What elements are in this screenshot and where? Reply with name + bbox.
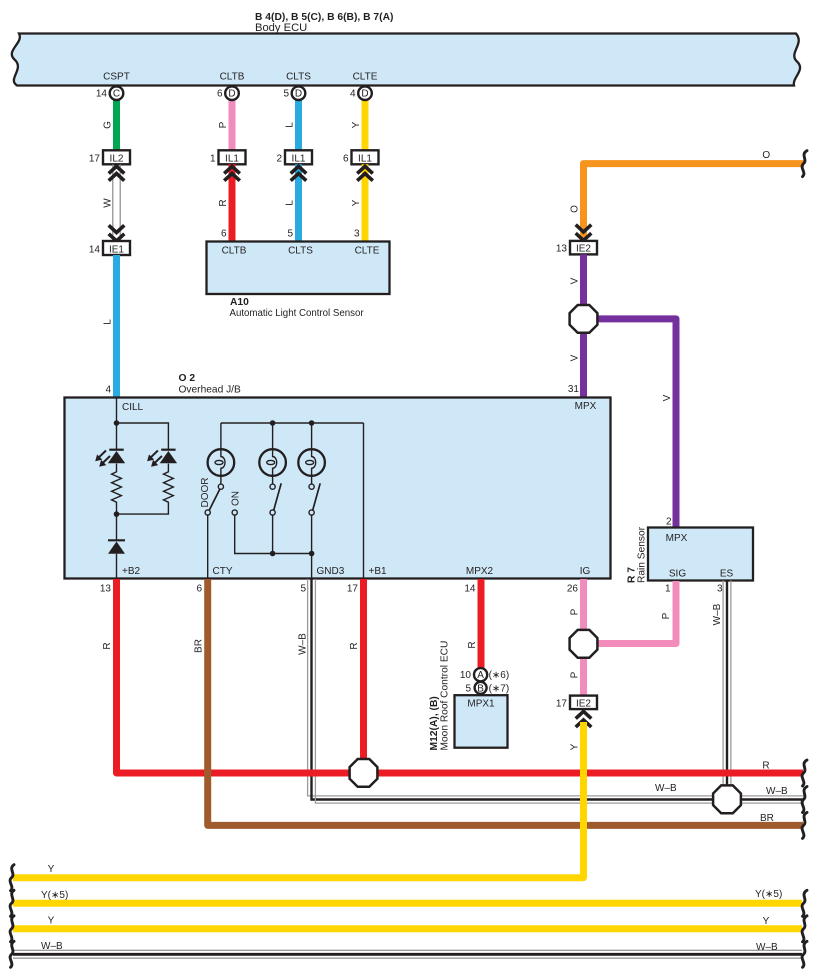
svg-text:Body ECU: Body ECU — [255, 22, 307, 34]
connector pin 14 C — [110, 86, 124, 100]
svg-text:A: A — [477, 670, 484, 681]
resistor R-a — [112, 464, 122, 514]
svg-text:MPX1: MPX1 — [467, 699, 495, 710]
svg-text:17: 17 — [556, 698, 568, 709]
break symbol W-B right end — [802, 787, 807, 813]
A10 Automatic Light Control Sensor box — [207, 242, 390, 295]
bus wire Y lower — [13, 925, 802, 932]
svg-text:R: R — [762, 761, 769, 772]
svg-text:Rain Sensor: Rain Sensor — [637, 526, 648, 583]
wire R +B1 down to junction J4 — [360, 579, 367, 773]
svg-text:BR: BR — [194, 639, 205, 653]
svg-text:CLTB: CLTB — [222, 246, 247, 257]
svg-text:R: R — [218, 199, 229, 206]
svg-text:(∗6): (∗6) — [489, 670, 510, 681]
svg-text:Y: Y — [570, 743, 581, 750]
svg-text:ON: ON — [231, 491, 242, 506]
connector pin 5 D — [292, 86, 306, 100]
svg-text:L: L — [103, 319, 114, 325]
svg-text:Y: Y — [763, 916, 770, 927]
svg-text:5: 5 — [283, 88, 289, 99]
svg-text:GND3: GND3 — [317, 566, 345, 577]
svg-text:1: 1 — [665, 584, 671, 595]
lamp top rail — [221, 422, 364, 424]
switch S3 — [309, 484, 314, 489]
moon roof pin 5 B (*7) — [475, 682, 487, 694]
svg-text:14: 14 — [464, 584, 476, 595]
svg-text:IE1: IE1 — [109, 244, 124, 255]
svg-text:IE2: IE2 — [576, 244, 591, 255]
svg-text:CLTE: CLTE — [355, 246, 380, 257]
svg-text:Overhead J/B: Overhead J/B — [179, 385, 241, 396]
svg-text:Y: Y — [351, 121, 362, 128]
svg-text:D: D — [228, 89, 235, 100]
svg-text:W–B: W–B — [41, 941, 63, 952]
bus wire Y(*5) — [13, 900, 802, 907]
junction J3 octagon on W-B line — [713, 785, 741, 813]
junction connector 17 IL2 — [103, 150, 130, 164]
svg-text:6: 6 — [343, 154, 349, 165]
wire W IL2 to IE1 — [112, 164, 114, 241]
svg-text:B: B — [477, 683, 484, 694]
svg-text:W–B: W–B — [655, 783, 677, 794]
svg-text:CILL: CILL — [122, 402, 144, 413]
svg-text:O: O — [570, 205, 581, 213]
break symbol orange right end — [802, 151, 807, 177]
svg-text:G: G — [103, 121, 114, 129]
svg-text:P: P — [218, 121, 229, 128]
svg-text:P: P — [570, 608, 581, 615]
svg-text:17: 17 — [347, 584, 359, 595]
wire +B1 internal — [363, 423, 365, 579]
svg-text:6: 6 — [221, 229, 227, 240]
svg-text:IG: IG — [580, 566, 591, 577]
connector pin 6 D — [225, 86, 239, 100]
wire L IL1 to A10 CLTS — [295, 164, 302, 242]
node junction dot top — [114, 420, 120, 426]
diode D3 — [116, 514, 118, 540]
break symbol R right end — [802, 760, 807, 786]
svg-text:(∗7): (∗7) — [489, 683, 510, 694]
svg-text:Y: Y — [48, 864, 55, 875]
Body ECU band B4(D) B5(C) B6(B) B7(A) — [12, 34, 800, 86]
wire R MPX2 to moon roof ECU — [478, 579, 485, 668]
node junction dot lower — [114, 511, 120, 517]
svg-text:CTY: CTY — [213, 566, 233, 577]
svg-text:4: 4 — [350, 88, 356, 99]
svg-text:IE2: IE2 — [576, 698, 591, 709]
svg-text:BR: BR — [760, 813, 774, 824]
switch S2 — [270, 484, 275, 489]
svg-text:5: 5 — [287, 229, 293, 240]
O2 Overhead J/B box — [65, 398, 611, 579]
junction J4 octagon on R line — [350, 759, 378, 787]
svg-text:R: R — [467, 641, 478, 648]
svg-text:17: 17 — [89, 154, 101, 165]
wire DOOR contact to CTY — [207, 515, 209, 578]
svg-text:O 2: O 2 — [179, 373, 196, 384]
svg-text:IL2: IL2 — [110, 154, 124, 165]
wire Y CLTE to IL1 — [362, 99, 369, 151]
lamp L2 — [272, 423, 274, 450]
wire G CSPT to IL2 — [113, 99, 120, 151]
svg-text:V: V — [570, 277, 581, 284]
svg-text:3: 3 — [717, 584, 723, 595]
wire V branch to rain sensor MPX — [592, 319, 676, 528]
junction connector 13 IE2 — [570, 241, 597, 255]
wire Y IE2 down to bottom bus — [13, 722, 584, 878]
wire GND3 internal — [311, 554, 313, 579]
wire P branch to rain sensor SIG — [594, 581, 676, 644]
bus wire W-B — [13, 949, 802, 951]
junction J2 octagon — [570, 630, 598, 658]
svg-text:R: R — [102, 642, 113, 649]
svg-text:SIG: SIG — [669, 569, 686, 580]
wire R IL1 to A10 CLTB — [229, 164, 236, 242]
svg-text:4: 4 — [105, 385, 111, 396]
svg-text:A10: A10 — [230, 297, 249, 308]
svg-text:MPX: MPX — [666, 533, 688, 544]
break symbols left ends — [10, 865, 14, 891]
wire BR CTY to right edge — [208, 579, 803, 825]
svg-text:IL1: IL1 — [225, 154, 239, 165]
wire V IE2 to junction J1 — [580, 254, 587, 308]
svg-text:M12(A), (B): M12(A), (B) — [429, 696, 440, 750]
svg-text:14: 14 — [89, 244, 101, 255]
wire W-B GND3 to bottom rail — [308, 579, 804, 803]
switch DOOR/ON — [218, 484, 223, 489]
svg-text:CLTE: CLTE — [353, 72, 378, 83]
svg-text:2: 2 — [276, 154, 282, 165]
wire CILL internal — [116, 398, 118, 423]
wire R +B2 to right edge — [117, 579, 804, 773]
svg-text:5: 5 — [465, 683, 471, 694]
svg-text:L: L — [285, 122, 296, 128]
svg-text:CLTS: CLTS — [286, 72, 311, 83]
junction connector 6 IL1 — [352, 150, 379, 164]
svg-text:1: 1 — [210, 154, 216, 165]
svg-text:L: L — [285, 200, 296, 206]
svg-text:W–B: W–B — [712, 603, 723, 625]
svg-text:5: 5 — [300, 584, 306, 595]
svg-text:+B2: +B2 — [122, 566, 141, 577]
svg-text:Y: Y — [48, 916, 55, 927]
break symbol BR right end — [802, 812, 807, 838]
svg-text:13: 13 — [100, 584, 112, 595]
svg-text:Automatic Light Control Sensor: Automatic Light Control Sensor — [230, 308, 365, 319]
svg-text:Moon Roof Control ECU: Moon Roof Control ECU — [440, 641, 451, 751]
break symbols right ends — [802, 890, 807, 916]
wire L IE1 to O2 CILL — [113, 255, 120, 398]
svg-text:C: C — [113, 89, 120, 100]
svg-text:W–B: W–B — [766, 786, 788, 797]
junction connector 2 IL1 — [285, 150, 312, 164]
svg-text:MPX2: MPX2 — [466, 566, 494, 577]
svg-text:R: R — [349, 642, 360, 649]
svg-text:2: 2 — [666, 517, 672, 528]
svg-text:W–B: W–B — [298, 633, 309, 655]
svg-text:DOOR: DOOR — [200, 478, 211, 508]
svg-text:V: V — [570, 354, 581, 361]
svg-text:D: D — [361, 89, 368, 100]
LED D2 — [161, 449, 175, 451]
svg-text:CSPT: CSPT — [103, 72, 130, 83]
svg-text:IL1: IL1 — [292, 154, 306, 165]
svg-text:IL1: IL1 — [358, 154, 372, 165]
moon roof pin 10 A (*6) — [474, 668, 487, 681]
svg-text:CLTB: CLTB — [220, 72, 245, 83]
svg-text:ES: ES — [720, 569, 734, 580]
wire P IG to junction J2 — [580, 579, 587, 632]
svg-text:6: 6 — [217, 88, 223, 99]
svg-text:Y(∗5): Y(∗5) — [755, 889, 782, 900]
wire O from right edge down to IE2 — [584, 164, 805, 240]
svg-text:D: D — [295, 89, 302, 100]
junction J1 octagon — [570, 305, 598, 333]
wire V junction J1 to O2 MPX — [580, 330, 587, 398]
wire Y IL1 to A10 CLTE — [362, 164, 369, 242]
LED D1 — [116, 423, 118, 450]
svg-text:+B1: +B1 — [369, 566, 388, 577]
svg-text:Y(∗5): Y(∗5) — [41, 890, 68, 901]
wire L CLTS to IL1 — [295, 99, 302, 151]
M12 Moon Roof Control ECU box MPX1 — [455, 695, 508, 748]
svg-text:W–B: W–B — [756, 942, 778, 953]
wire P CLTB to IL1 — [229, 99, 236, 151]
svg-text:13: 13 — [556, 244, 568, 255]
svg-text:CLTS: CLTS — [288, 246, 313, 257]
wire ON contact to GND3 rail — [235, 515, 312, 553]
svg-text:26: 26 — [567, 584, 579, 595]
svg-text:6: 6 — [196, 584, 202, 595]
svg-text:14: 14 — [96, 88, 108, 99]
svg-text:31: 31 — [568, 384, 580, 395]
svg-text:MPX: MPX — [575, 401, 597, 412]
junction connector 14 IE1 — [103, 241, 130, 255]
lamp L3 — [311, 423, 313, 450]
svg-text:3: 3 — [354, 229, 360, 240]
svg-text:V: V — [662, 394, 673, 401]
R7 Rain Sensor box — [648, 528, 753, 581]
svg-text:10: 10 — [460, 670, 472, 681]
junction connector 1 IL1 — [219, 150, 246, 164]
svg-text:W: W — [103, 198, 114, 208]
resistor R-b — [117, 464, 174, 514]
wire branch to LED2 — [117, 423, 169, 450]
lamp L1 — [220, 423, 222, 450]
svg-text:O: O — [762, 150, 770, 161]
svg-text:P: P — [661, 612, 672, 619]
junction connector 17 IE2 — [570, 696, 597, 710]
svg-text:Y: Y — [351, 199, 362, 206]
connector pin 4 D — [358, 86, 372, 100]
wire P junction J2 to IE2 — [580, 655, 587, 696]
svg-text:P: P — [570, 671, 581, 678]
wire W-B rain sensor ES down — [723, 581, 731, 791]
